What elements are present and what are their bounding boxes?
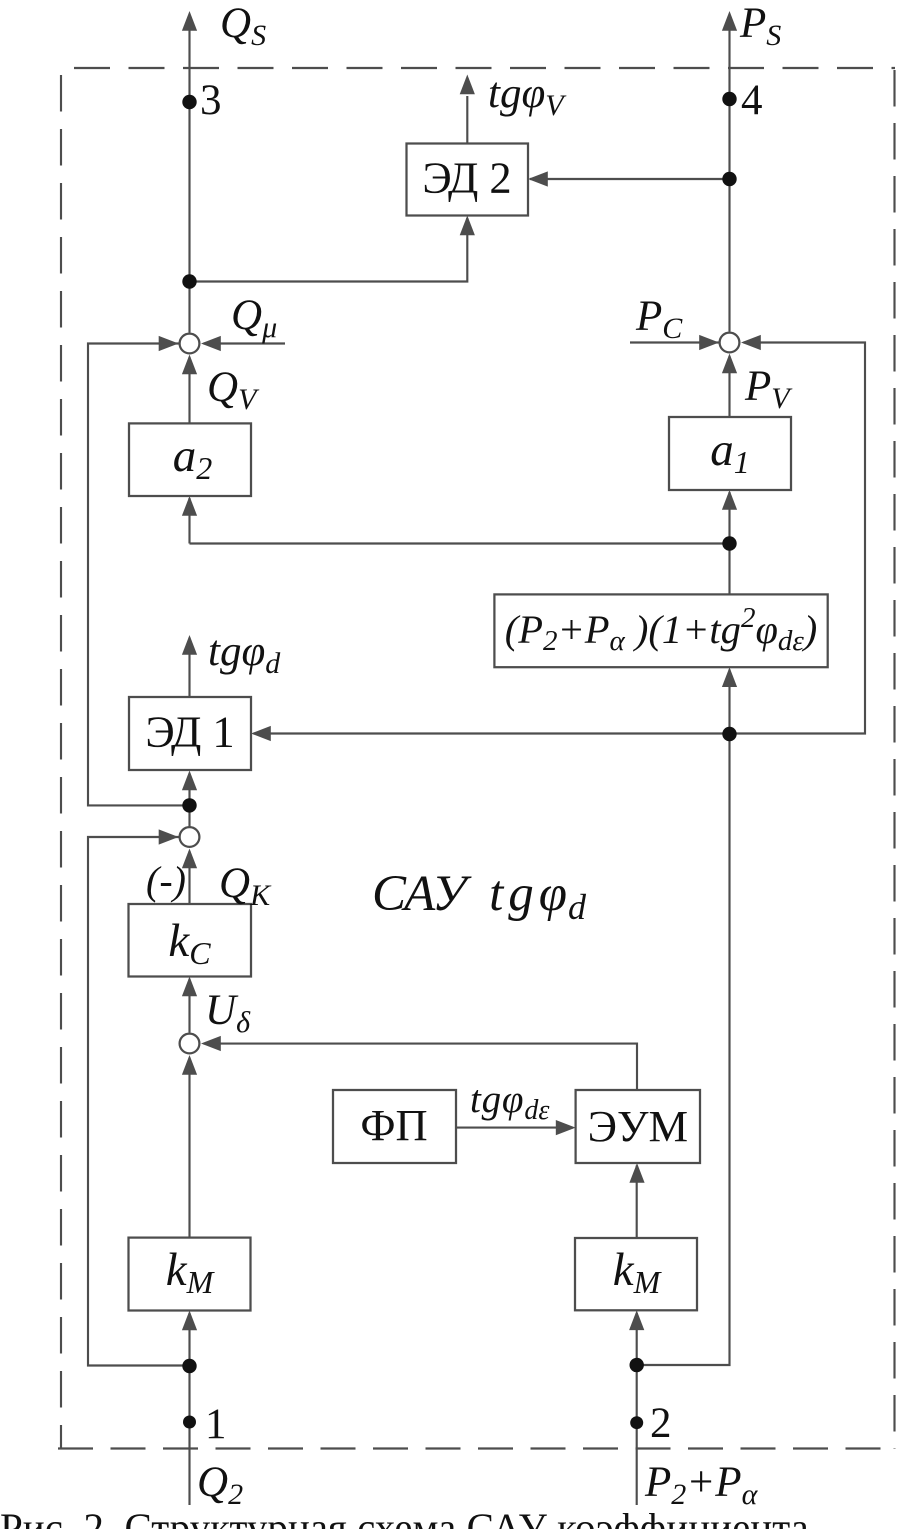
svg-text:QK: QK [219,860,272,912]
arrow tgphiV up [460,75,475,95]
arrow into a2 bottom [182,496,197,516]
wire node2 vertical and kM-right input [636,1313,638,1505]
block ED1 [129,697,251,770]
arrow Qmu into sum1 right [201,336,221,351]
wire sum3 to kC [188,979,190,1033]
node dot at ED2 branch left [182,274,196,288]
block EUM [576,1090,700,1163]
arrow into sum2 left [159,829,179,844]
summing junction sum2 [180,827,200,847]
node dot left bottom branch [182,1359,196,1373]
arrow into sum3 right [201,1036,221,1051]
svg-text:ЭД 2: ЭД 2 [422,153,511,203]
arrow into sumR right [741,335,761,350]
arrow into kM-right bottom [629,1310,644,1330]
node dot above sum2 [182,798,196,812]
dashed border left [60,75,62,1449]
svg-text:ЭД 1: ЭД 1 [145,707,234,757]
wire a1 to sumR [728,356,730,417]
svg-text:Uδ: Uδ [205,987,251,1039]
svg-text:2: 2 [650,1400,672,1447]
arrow into sum1 bottom [182,355,197,375]
arrow into sum1 left [159,336,179,351]
wire sum2 left feedback [88,837,190,1366]
svg-text:ЭУМ: ЭУМ [588,1101,688,1151]
arrow into EUM bottom [629,1163,644,1183]
svg-text:QV: QV [207,364,260,416]
svg-text:P2+Pα: P2+Pα [644,1459,759,1511]
node 3 dot [182,95,196,109]
block kM left [129,1238,251,1311]
svg-text:4: 4 [741,77,763,124]
svg-text:QS: QS [220,0,266,52]
block kC [129,904,252,977]
svg-text:tgφdε: tgφdε [470,1078,549,1126]
node dot at ED2 branch right [722,172,736,186]
summing junction sumR [720,333,740,353]
wire sum2 to ED1 [188,774,190,827]
arrow into formula bottom [722,667,737,687]
arrow into kC bottom [182,977,197,997]
block a2 [129,423,251,496]
svg-text:Рис. 2. Структурная схема САУ: Рис. 2. Структурная схема САУ коэффициен… [0,1505,809,1529]
wire sumR to PS output [728,30,730,332]
arrow into EUM left [556,1120,576,1135]
wire node1 vertical and kM-left input [188,1313,190,1505]
wire left main vertical top (QS output) [188,30,190,333]
wire ED2 right input [530,178,730,180]
svg-text:ФП: ФП [360,1100,427,1150]
wire sum1 left feedback [88,344,190,806]
arrow into kM-left bottom [182,1311,197,1331]
wire ED1 right input [254,343,866,734]
arrow into sumR bottom [722,354,737,374]
arrow into a1 bottom [722,490,737,510]
arrow into ED1 right [251,726,271,741]
block FP [333,1090,456,1163]
wire tgphiV output [466,96,468,144]
wire right main vertical [637,734,730,1365]
svg-text:PS: PS [739,0,781,52]
wire kM-left to sum3 [188,1058,190,1238]
arrow into sum3 bottom [182,1055,197,1075]
dashed border right [893,70,895,1449]
wire a2 bottom feed [190,498,730,544]
block ED2 [407,144,529,216]
arrow into ED1 bottom [182,771,197,791]
node 1 dot [183,1416,196,1429]
svg-text:tgφV: tgφV [488,70,567,122]
node 4 dot [722,92,736,106]
arrow into ED2 right [528,171,548,186]
svg-text:3: 3 [200,77,222,124]
wire ED2 bottom feed [190,218,468,282]
svg-text:PC: PC [635,293,683,345]
wire kC to sum2 [188,851,190,904]
node dot above formula [722,536,736,550]
svg-text:Q2: Q2 [197,1459,243,1511]
arrow into ED2 bottom [460,216,475,236]
summing junction sum1 [180,334,200,354]
block formula [494,594,827,667]
svg-text:1: 1 [205,1401,227,1448]
svg-text:(-): (-) [146,858,186,903]
block a1 [669,417,791,490]
svg-text:САУ tgφd: САУ tgφd [372,866,587,927]
node 2 dot [630,1416,643,1429]
arrow PS up [722,11,737,31]
node dot right bottom branch [630,1358,644,1372]
wire kM-right to EUM [636,1166,638,1239]
wire sum1 to a2 [188,357,190,423]
svg-text:Qμ: Qμ [231,292,277,344]
wire FP to EUM [456,1127,573,1129]
wire EUM to sum3 [204,1044,638,1090]
arrow into sum2 bottom [182,849,197,869]
wire formula bottom input [728,670,730,735]
dashed border bottom [58,1447,895,1449]
wire PC input [630,341,721,343]
node dot below formula [722,727,736,741]
svg-text:PV: PV [744,363,793,415]
wire formula to a1 [728,492,730,594]
dashed border top [74,67,895,69]
arrow PC into sumR left [699,335,719,350]
svg-text:tgφd: tgφd [208,628,281,680]
block kM right [575,1238,697,1310]
wire tgphid output [188,638,190,698]
arrow QS up [182,11,197,31]
wire Qmu input [204,342,286,344]
arrow tgphid up [182,635,197,655]
summing junction sum3 [180,1034,200,1054]
